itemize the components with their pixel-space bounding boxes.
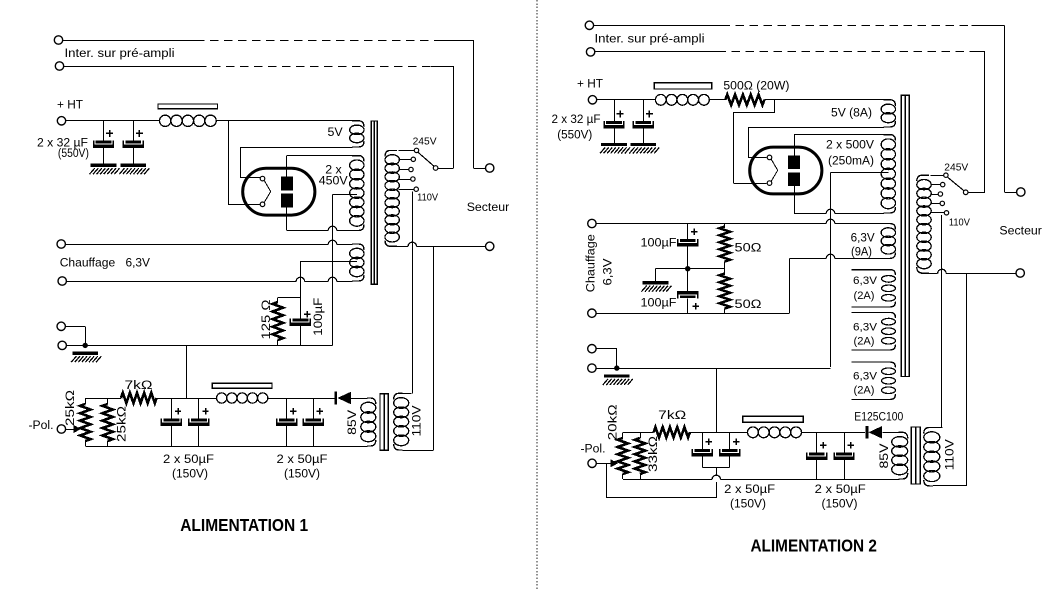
potentiometer P2 20k [622,432,624,438]
transformer T3 secondary 6.3V 2A winding 1 [852,270,896,276]
resistor R1 125 ohm [278,297,301,299]
tap 3 circle [409,167,413,171]
svg-text:2 x 32 µF: 2 x 32 µF [552,112,601,126]
tap wire 2 [399,159,412,161]
wire -Pol to potentiometer wiper [66,429,75,431]
wire secteur line lower [389,246,408,248]
svg-text:(9A): (9A) [851,246,872,258]
plus sign C9 [202,410,208,412]
svg-text:100µF: 100µF [641,295,677,309]
wire inter line 2 (solid+dashed) to switch contact [64,66,198,68]
wire anode bottom right [794,186,796,213]
wire switch contact to vertical [438,168,454,170]
svg-text:50Ω: 50Ω [735,297,762,311]
transformer T3 primary winding [917,175,929,181]
capacitor C8 50uF [171,398,173,419]
wire chauffage top [66,244,329,246]
wire ground terminal 1 stub [66,326,86,328]
terminal: +HT right [588,96,596,104]
capacitor C13 32uF [643,100,645,121]
core of choke L4 [743,416,803,422]
svg-text:Secteur: Secteur [467,200,510,214]
svg-text:Inter. sur pré-ampli: Inter. sur pré-ampli [65,46,175,60]
wire 110V tap vertical right [941,215,943,428]
tap wire 110V [399,189,415,191]
transformer T3 core [901,95,909,376]
wire ground rail [67,345,333,347]
tap 4 circle right [940,201,944,205]
capacitor C2 32uF [133,121,135,141]
core of choke L1 [158,104,218,109]
junction dot heater mid [685,266,690,271]
svg-text:5V (8A): 5V (8A) [831,105,872,119]
svg-text:2 x 50µF: 2 x 50µF [815,482,866,496]
transformer T3 secondary 6.3V 2A winding 3 [852,362,896,368]
svg-text:E125C100: E125C100 [854,410,903,424]
potentiometer P1 25k [85,398,87,404]
terminal: ground 1 [57,322,65,330]
wire -Pol to wiper right [596,463,611,465]
tap 110V circle [414,187,418,191]
transformer T4 core right [911,427,920,484]
transformer T3 secondary 500V winding [884,135,896,141]
wire -Pol detour [606,463,608,498]
terminal: secteur upper [486,164,494,172]
wire ground rail right [596,368,830,370]
plus sign C10 [290,410,296,412]
svg-text:(150V): (150V) [172,467,208,481]
wire bias top rail [85,398,121,400]
wire chauffage bottom right [596,313,789,315]
transformer T2 core [380,394,388,450]
terminal: inter pre-ampli line 2 (right) [586,48,594,56]
wire 5V winding bottom to filament top [240,147,352,149]
wire vertical to switch contact right [984,52,986,192]
capacitor C17 50uF [729,432,731,449]
plus sign C13 [646,113,653,115]
svg-text:85V: 85V [345,409,359,435]
wire contact to vertical right [968,192,985,194]
capacitor C16 50uF [702,432,704,449]
plus sign C11 [317,410,323,412]
svg-text:(250mA): (250mA) [828,153,874,167]
svg-text:110V: 110V [942,438,956,470]
diode D2 E125C100 [866,426,869,439]
terminal: ground 2 right [588,364,596,372]
svg-text:6,3V: 6,3V [853,275,878,287]
resistor R8 7k right [654,427,690,437]
plus sign C14 [691,231,697,233]
wire inter line 2 right [595,51,718,53]
wire inter line 1 (solid+dashed) to secteur switch [63,40,196,42]
wire bias 110V bottom [403,450,434,452]
plus sign C2 [136,132,143,134]
wire HT down to tube filament [228,121,230,204]
wire anode bottom to 450V winding bottom [286,207,288,230]
transformer T3 secondary 6.3V 2A winding 2 [852,312,896,318]
svg-text:(150V): (150V) [730,496,766,510]
wire vertical to secteur upper right [1004,25,1006,192]
tap 110V circle right [944,211,948,215]
svg-text:6,3V: 6,3V [851,232,875,244]
terminal: chauffage 1 [57,240,65,248]
svg-text:50Ω: 50Ω [735,240,762,254]
wire vertical to upper secteur terminal [473,40,475,168]
svg-text:-Pol.: -Pol. [581,442,606,456]
ground symbol right [604,374,630,377]
wire 500V centre tap [831,172,889,174]
tap wire 3 right [930,194,938,196]
svg-text:ALIMENTATION 1: ALIMENTATION 1 [180,515,308,535]
svg-text:+ HT: + HT [577,77,603,91]
tap wire 245V right [930,175,943,177]
wire chauffage top right [596,223,826,225]
plus sign C8 [175,410,181,412]
terminal: ground 2 [58,341,66,349]
svg-text:7kΩ: 7kΩ [658,408,686,422]
wire heater mid row [656,268,725,270]
svg-text:+ HT: + HT [57,97,83,111]
wire caps common bar [702,467,729,469]
svg-text:110V: 110V [410,405,424,437]
transformer T1 core [371,121,377,284]
svg-text:100µF: 100µF [311,297,325,335]
transformer T1 primary winding [385,150,397,156]
terminal: chauffage 2 right [588,309,596,317]
wire bias bottom rail right [623,479,712,481]
inductor L3 filter choke right [655,94,666,105]
divider dotted line between schematics [536,0,538,589]
tap wire 3 [399,169,409,171]
wire secteur line lower right [921,273,938,275]
transformer T3 secondary 5V winding [884,100,896,106]
core of choke L2 [212,383,272,388]
terminal: secteur lower [486,242,494,250]
inductor L4 bias choke right [748,427,759,438]
wire ground rail down to bias right [716,368,718,432]
terminal: interrupteur pre-ampli line 2 [55,62,63,70]
resistor R6 50 ohm [724,269,726,274]
svg-text:25kΩ: 25kΩ [63,390,77,426]
svg-text:20kΩ: 20kΩ [605,404,619,440]
switch arm [418,152,434,166]
svg-text:33kΩ: 33kΩ [646,436,660,472]
rectifier tube V2 [750,147,822,194]
svg-text:2 x 500V: 2 x 500V [826,137,875,151]
svg-text:-Pol.: -Pol. [29,418,54,432]
svg-text:(2A): (2A) [854,336,875,348]
terminal: interrupteur pre-ampli line 1 [54,36,62,44]
resistor R3 7k [121,393,157,403]
capacitor C10 50uF [286,398,288,419]
capacitor C14 100uF [687,224,689,240]
plus sign C1 [106,132,113,134]
rectifier tube V1 [243,168,315,215]
tap wire 4 right [930,203,940,205]
tap 245V circle right [944,173,948,177]
transformer T2 110V winding [394,393,403,399]
wire chauffage bottom [67,281,297,283]
terminal: secteur lower right [1016,269,1024,277]
wire inter line 1 right [594,25,722,27]
wire 6.3V centre tap [300,261,357,263]
plus sign C7 [304,313,310,315]
transformer T1 secondary 450V winding [352,156,364,162]
svg-text:25kΩ: 25kΩ [115,406,129,442]
tap 4 circle [411,177,415,181]
tap wire 245V [399,150,415,152]
ground symbol under C13 [631,143,657,146]
plus sign C18 [820,444,826,446]
inductor L2 bias choke [217,393,227,403]
plus sign C15 [693,305,699,307]
resistor R4 500 ohm [725,95,764,105]
svg-text:110V: 110V [949,218,970,229]
wire +HT rail [66,120,160,122]
tap wire 4 [399,179,411,181]
wire 5V bottom to filament right [748,127,884,129]
svg-text:(150V): (150V) [822,496,858,510]
capacitor C9 50uF [198,398,200,419]
wire 110V tap vertical [412,191,414,393]
wire to secteur upper right [1004,192,1016,194]
tap 3 circle right [938,192,942,196]
svg-text:ALIMENTATION 2: ALIMENTATION 2 [750,536,877,556]
wire anode top to 450V winding top [286,156,288,177]
potentiometer wiper arrow [74,425,82,433]
svg-text:(550V): (550V) [557,127,592,141]
plus sign C12 [617,113,624,115]
ground symbol under C2 [121,164,147,167]
transformer T4 110V winding right [924,428,933,434]
terminal: ground 1 right [588,345,596,353]
switch arm right [947,177,964,191]
svg-text:2 x 50µF: 2 x 50µF [724,482,775,496]
wire gnd stub right [596,348,617,350]
capacitor C7 100uF [293,319,309,322]
plus sign C19 [847,444,853,446]
svg-text:85V: 85V [877,443,891,469]
plus sign C17 [733,441,739,443]
wire to secteur upper [473,168,485,170]
tap wire 2 right [930,184,940,186]
wire anode top right [794,135,796,156]
junction dot ground right [614,365,619,370]
svg-text:Chauffage: Chauffage [60,255,116,269]
svg-text:7kΩ: 7kΩ [125,378,153,392]
svg-text:6,3V: 6,3V [126,255,151,269]
inductor L1 filter choke [160,115,171,126]
svg-text:Chauffage: Chauffage [584,234,598,292]
capacitor C11 50uF [313,398,315,419]
transformer T4 bias 85V winding right [899,432,908,438]
wire 9A bottom feed [789,258,791,313]
terminal: inter pre-ampli line 1 (right) [585,21,593,29]
wire HT to tube right [774,100,776,112]
wire bias top rail right [623,432,654,434]
svg-text:2 x 50µF: 2 x 50µF [277,452,328,466]
ground symbol heater mid [643,281,669,284]
junction dot ground [83,343,88,348]
capacitor C15 100uF mirrored [687,269,689,291]
svg-text:245V: 245V [944,163,968,174]
svg-text:450V: 450V [319,174,349,188]
svg-text:6,3V: 6,3V [853,370,878,382]
terminal: chauffage 2 [58,277,66,285]
wire +HT rail right [597,99,656,101]
ground symbol under C1 [91,164,117,167]
resistor R2 25k [107,398,109,404]
svg-text:(2A): (2A) [854,290,875,302]
capacitor C19 50uF [844,432,846,452]
tap 245V circle [414,148,418,152]
diode D1 [335,392,338,405]
svg-text:(550V): (550V) [58,146,89,160]
capacitor C1 32uF [103,121,105,141]
ground symbol under C12 [601,143,627,146]
svg-text:110V: 110V [417,193,438,204]
wire ground rail down to bias [186,345,188,398]
svg-text:125 Ω: 125 Ω [259,300,273,340]
svg-text:Secteur: Secteur [999,224,1042,238]
potentiometer wiper arrow right [611,459,619,467]
svg-text:5V: 5V [328,125,344,139]
transformer T2 bias 85V winding [367,398,376,404]
wire bias 110V bottom right [933,485,967,487]
transformer T1 secondary 5V winding [352,121,364,127]
transformer T1 secondary 6.3V winding [352,244,364,250]
svg-text:Inter. sur pré-ampli: Inter. sur pré-ampli [595,32,705,46]
terminal: +HT output [57,117,65,125]
capacitor C12 32uF [614,100,616,121]
core of choke L3 [654,83,712,89]
svg-text:6,3V: 6,3V [601,258,615,286]
terminal: chauffage 1 right [588,219,596,227]
tap wire 110V right [930,212,944,214]
svg-text:(150V): (150V) [284,467,320,481]
wire mid to ground [655,269,657,281]
svg-text:500Ω (20W): 500Ω (20W) [723,79,789,93]
tap 2 circle right [941,182,945,186]
svg-text:6,3V: 6,3V [853,321,878,333]
wire vertical to switch contact [453,66,455,168]
svg-text:100µF: 100µF [641,236,677,250]
wire 110V top jog right [933,427,943,429]
svg-text:2 x 50µF: 2 x 50µF [163,452,214,466]
wire bias bottom rail [85,446,367,448]
terminal: -Pol right [588,459,596,467]
svg-text:(2A): (2A) [854,385,875,397]
resistor R7 33k [640,432,642,438]
switch contact circle right [963,190,968,195]
tap 2 circle [411,157,415,161]
svg-text:245V: 245V [413,137,437,148]
wire 110V top to 110V tap [402,393,411,395]
plus sign C16 [706,441,712,443]
resistor R5 50 ohm [724,224,726,227]
terminal: -Pol output [57,425,65,433]
capacitor C18 50uF [816,432,818,452]
wire 450V centre tap to ground rail [333,194,358,196]
ground symbol main [72,352,98,355]
switch contact circle [433,166,438,171]
transformer T3 secondary 6.3V 9A winding [884,224,896,230]
terminal: secteur upper right [1017,188,1025,196]
